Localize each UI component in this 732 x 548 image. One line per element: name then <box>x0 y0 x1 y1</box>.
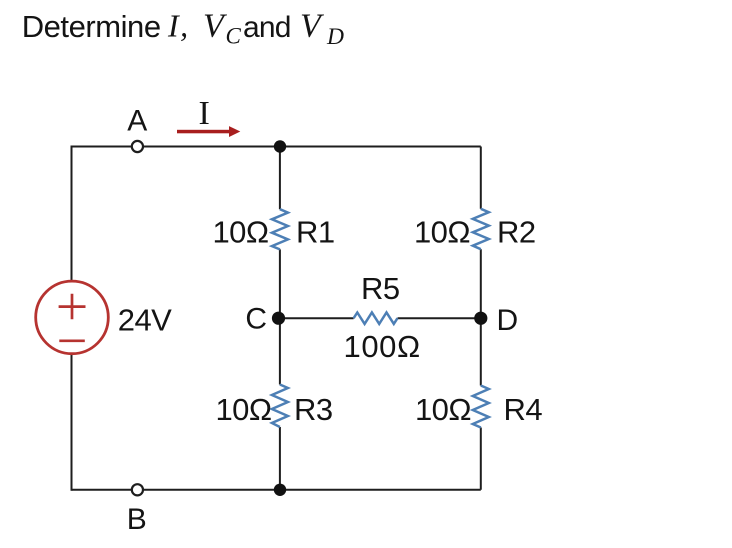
svg-text:and: and <box>243 11 291 44</box>
svg-text:R5: R5 <box>361 271 400 306</box>
svg-text:10Ω: 10Ω <box>212 215 268 250</box>
svg-text:D: D <box>497 304 519 337</box>
svg-text:R2: R2 <box>497 215 536 250</box>
svg-text:A: A <box>127 105 147 138</box>
svg-text:100Ω: 100Ω <box>344 329 421 364</box>
svg-text:C: C <box>245 303 267 336</box>
svg-text:V: V <box>300 8 325 45</box>
svg-text:B: B <box>127 503 147 536</box>
svg-text:10Ω: 10Ω <box>215 392 271 427</box>
svg-text:10Ω: 10Ω <box>415 392 471 427</box>
svg-text:I,: I, <box>167 8 190 44</box>
svg-text:I: I <box>199 95 210 132</box>
svg-text:V: V <box>203 8 228 45</box>
svg-text:C: C <box>226 24 242 49</box>
svg-text:R4: R4 <box>504 392 543 427</box>
svg-text:24V: 24V <box>118 303 172 338</box>
svg-text:D: D <box>326 24 344 50</box>
svg-text:Determine: Determine <box>22 9 161 44</box>
svg-text:R1: R1 <box>296 215 335 250</box>
svg-text:10Ω: 10Ω <box>414 215 470 250</box>
svg-text:R3: R3 <box>294 392 333 427</box>
